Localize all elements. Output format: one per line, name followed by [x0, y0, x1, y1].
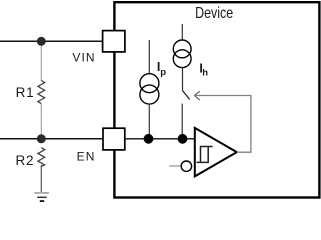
svg-text:VIN: VIN — [72, 51, 95, 65]
wire left rail — [40, 41, 42, 139]
node EN-Ip junction — [144, 134, 154, 144]
wire VIN — [0, 40, 103, 42]
comparator U1 — [195, 128, 237, 176]
svg-text:R1: R1 — [16, 85, 35, 100]
wire Ih top stub — [181, 24, 183, 40]
resistor R1 — [38, 81, 45, 104]
arrow feedback head — [194, 91, 199, 100]
wire switch bottom — [181, 104, 183, 139]
wire feedback — [195, 96, 251, 153]
switch S1 blade — [183, 91, 190, 100]
wire Ip bottom — [148, 104, 150, 139]
wire Ip top stub — [148, 40, 150, 74]
pin EN box — [103, 128, 125, 150]
pin VIN box — [103, 31, 125, 52]
inverting input circle — [181, 161, 191, 171]
current source Ip — [140, 74, 159, 104]
node VIN junction — [37, 37, 46, 46]
svg-text:h: h — [202, 67, 208, 78]
ground — [34, 193, 49, 201]
wire inverting input stub — [169, 165, 181, 167]
node EN-Ih junction — [178, 134, 188, 144]
resistor R2 — [38, 148, 45, 167]
node EN junction — [37, 134, 46, 143]
current source Ih — [173, 40, 191, 68]
svg-text:Device: Device — [195, 5, 233, 23]
wire Ih to switch — [182, 67, 184, 90]
wire EN — [0, 138, 104, 140]
svg-text:R2: R2 — [16, 153, 35, 168]
svg-text:p: p — [160, 67, 166, 78]
hysteresis symbol — [197, 147, 213, 163]
wire EN internal — [125, 138, 195, 140]
device box — [114, 2, 319, 197]
svg-text:EN: EN — [77, 150, 96, 164]
